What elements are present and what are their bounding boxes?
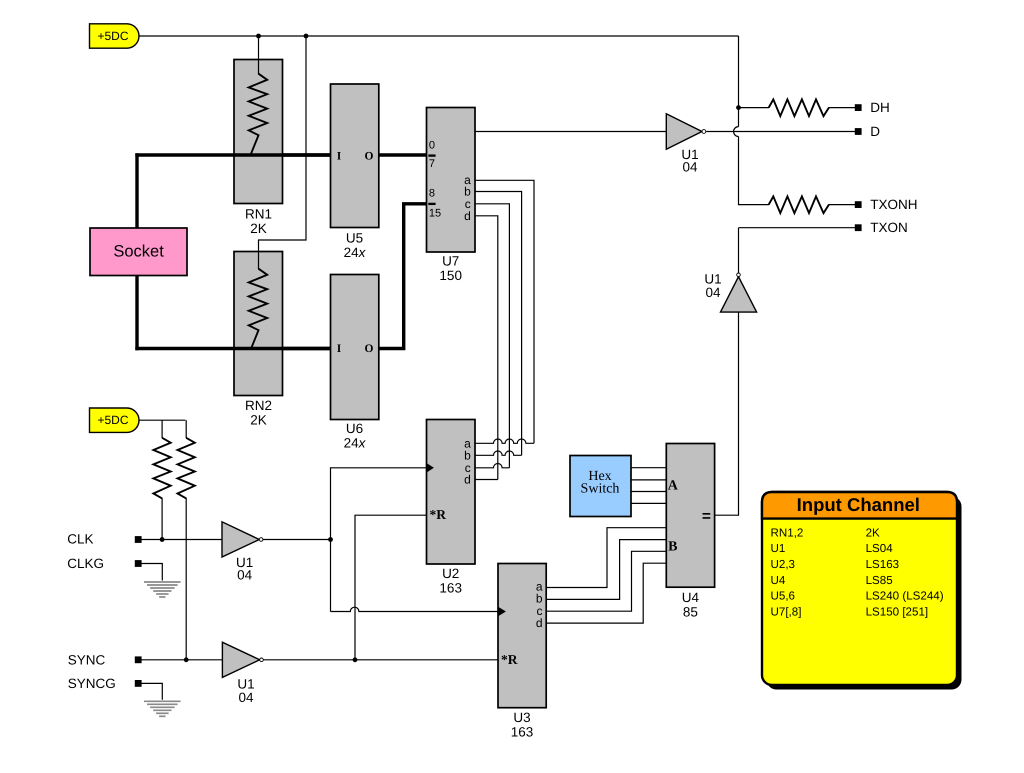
svg-text:d: d [464,209,471,223]
svg-text:d: d [536,616,543,630]
svg-text:RN1,2: RN1,2 [771,526,804,539]
svg-text:Switch: Switch [581,482,620,497]
svg-text:8: 8 [429,188,435,200]
svg-text:U2: U2 [442,566,459,581]
svg-text:CLK: CLK [67,531,93,546]
svg-text:=: = [702,508,711,525]
svg-text:2K: 2K [250,221,267,236]
svg-text:O: O [365,343,374,355]
svg-text:7: 7 [429,158,435,170]
svg-text:SYNC: SYNC [68,652,106,667]
svg-text:LS04: LS04 [866,542,894,555]
svg-text:O: O [365,150,374,162]
svg-text:163: 163 [439,581,462,596]
svg-text:04: 04 [238,690,254,705]
svg-text:2K: 2K [866,526,880,539]
svg-text:24x: 24x [344,245,367,260]
svg-text:Input Channel: Input Channel [797,494,920,515]
svg-text:U6: U6 [346,421,363,436]
svg-text:LS85: LS85 [866,574,893,587]
svg-text:D: D [870,124,880,139]
svg-text:U1: U1 [771,542,786,555]
svg-text:RN1: RN1 [245,207,272,222]
svg-text:*R: *R [430,507,447,522]
svg-text:U5: U5 [346,231,363,246]
svg-text:85: 85 [683,605,698,620]
svg-text:B: B [668,540,677,555]
svg-text:LS150 [251]: LS150 [251] [866,606,929,619]
svg-text:24x: 24x [344,436,367,451]
svg-text:LS240 (LS244): LS240 (LS244) [866,590,944,603]
svg-text:I: I [337,150,342,162]
svg-text:150: 150 [439,268,462,283]
svg-text:163: 163 [511,725,534,740]
svg-text:LS163: LS163 [866,558,900,571]
svg-text:DH: DH [870,100,890,115]
svg-text:RN2: RN2 [245,398,272,413]
svg-text:04: 04 [682,160,698,175]
svg-text:U2,3: U2,3 [771,558,796,571]
svg-text:2K: 2K [250,413,267,428]
svg-text:0: 0 [429,139,435,151]
svg-text:I: I [337,343,342,355]
svg-text:CLKG: CLKG [67,556,104,571]
svg-text:U7: U7 [442,254,459,269]
svg-text:U3: U3 [513,710,530,725]
svg-text:15: 15 [429,207,441,219]
svg-text:U4: U4 [771,574,786,587]
svg-text:+5DC: +5DC [97,29,128,43]
svg-text:+5DC: +5DC [97,413,128,427]
svg-text:04: 04 [237,568,253,583]
svg-text:d: d [464,473,471,487]
svg-text:SYNCG: SYNCG [68,676,116,691]
svg-text:TXONH: TXONH [870,197,917,212]
svg-text:U4: U4 [682,590,700,605]
svg-text:A: A [668,479,679,494]
svg-text:U5,6: U5,6 [771,590,796,603]
svg-text:*R: *R [501,652,518,667]
svg-text:TXON: TXON [870,220,908,235]
svg-text:U7[,8]: U7[,8] [771,606,802,619]
svg-text:Socket: Socket [113,243,164,261]
svg-text:04: 04 [705,285,721,300]
